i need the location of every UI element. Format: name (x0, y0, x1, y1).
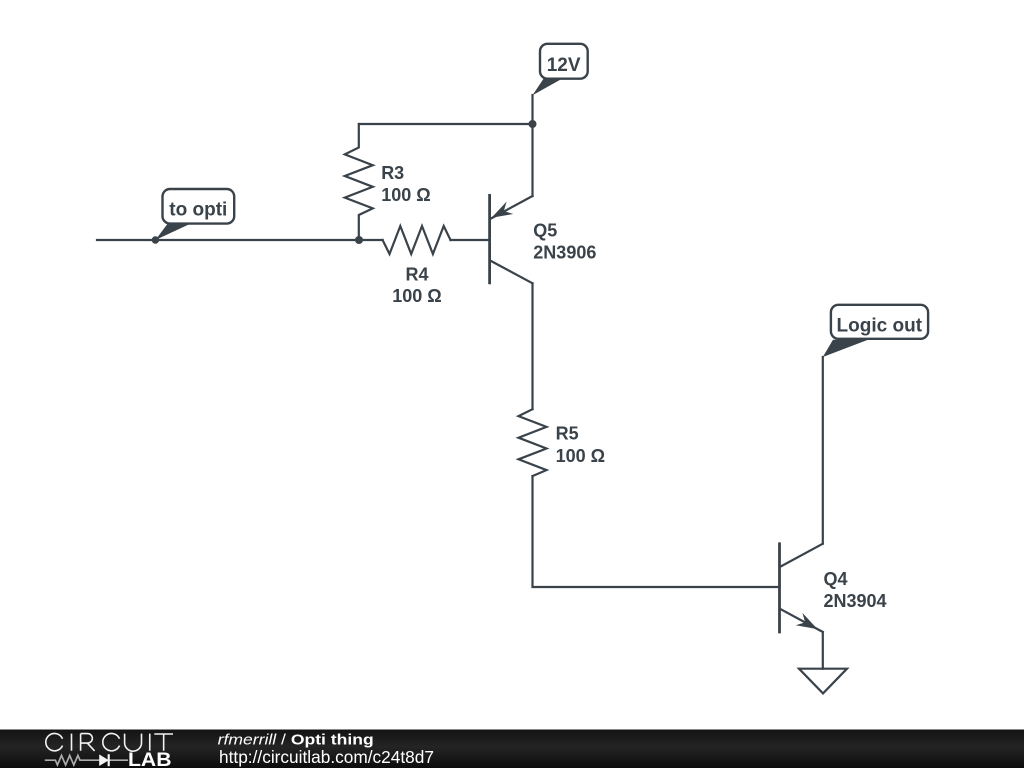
svg-text:100 Ω: 100 Ω (556, 446, 605, 466)
wire Q4 emitter to ground (822, 632, 824, 669)
svg-text:100 Ω: 100 Ω (392, 286, 441, 306)
Q5 emitter diagonal (491, 196, 533, 219)
Q4 base bar (778, 544, 781, 632)
Q5 base bar (488, 195, 491, 283)
flag "Logic out" box (831, 305, 928, 339)
svg-text:rfmerrill / Opti thing: rfmerrill / Opti thing (218, 732, 374, 748)
svg-text:12V: 12V (547, 55, 581, 76)
svg-text:LAB: LAB (128, 750, 172, 768)
footer bar (0, 730, 1024, 768)
svg-text:Q4: Q4 (824, 569, 848, 589)
Q4 emitter diagonal (780, 609, 823, 632)
resistor R4 zigzag (383, 226, 451, 254)
svg-text:R4: R4 (405, 264, 428, 284)
wire R5 to Q4 base (down and right) (533, 476, 780, 587)
Q5 collector diagonal (491, 261, 533, 283)
wire main horizontal (left rail to R4) (97, 239, 383, 241)
svg-text:R3: R3 (381, 163, 404, 183)
wire junction to Q5 emitter (531, 124, 533, 196)
svg-text:R5: R5 (556, 424, 579, 444)
svg-text:2N3906: 2N3906 (533, 243, 596, 263)
svg-text:Logic out: Logic out (837, 316, 923, 337)
flag "to opti" tail (155, 223, 193, 241)
wire R4 to Q5 base (451, 239, 489, 241)
transistor Q5 (PNP 2N3906) (490, 195, 533, 283)
node junction dot 12V rail (529, 120, 537, 128)
logo CIRCUIT wordmark (drawn strokes) (46, 733, 173, 751)
transistor Q4 (NPN 2N3904) (780, 544, 823, 632)
flag "to opti" box (163, 189, 235, 224)
wire top horizontal (R3 top to 12V junction) (359, 123, 533, 125)
svg-text:to opti: to opti (169, 200, 227, 221)
Q4 collector diagonal (780, 544, 823, 567)
node junction dot R3/main wire (355, 236, 363, 244)
flag 12V tail (533, 79, 563, 96)
logo diode triangle (99, 754, 109, 766)
ground symbol (799, 669, 847, 694)
svg-text:http://circuitlab.com/c24t8d7: http://circuitlab.com/c24t8d7 (219, 747, 434, 767)
wire Q5 collector to R5 (531, 283, 533, 409)
logo resistor-diode symbol (45, 755, 128, 765)
flag "Logic out" tail (823, 340, 868, 357)
Q4 emitter arrow (points out, NPN) (796, 613, 818, 629)
logo diode bar (108, 754, 110, 766)
resistor R3 (vertical with stubs) (345, 124, 373, 240)
svg-text:2N3904: 2N3904 (824, 591, 887, 611)
wire 12V anchor to junction (531, 95, 533, 124)
node to-opti anchor dot (152, 236, 159, 243)
svg-text:100 Ω: 100 Ω (381, 185, 430, 205)
Q5 emitter arrow (points into base, PNP) (492, 202, 514, 218)
flag 12V box (540, 44, 588, 79)
wire Logic out to Q4 collector (822, 357, 824, 544)
svg-text:Q5: Q5 (533, 221, 557, 241)
resistor R5 zigzag (519, 409, 547, 476)
